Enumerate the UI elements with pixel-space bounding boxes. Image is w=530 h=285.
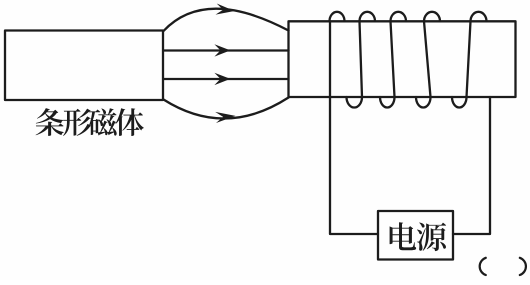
field line straight lower bbox=[164, 78, 289, 80]
arrow on upper straight field line bbox=[214, 44, 230, 56]
arrow on lower straight field line bbox=[214, 73, 230, 85]
coil winding turns bbox=[330, 12, 487, 108]
solenoid core rectangle bbox=[289, 21, 516, 97]
label char 条 bbox=[36, 108, 64, 136]
label char 体 bbox=[115, 108, 143, 136]
label char 源 bbox=[417, 223, 446, 252]
label char 形 bbox=[63, 109, 91, 136]
bar magnet body bbox=[5, 31, 163, 101]
field line top curve bbox=[164, 9, 289, 31]
power supply box bbox=[378, 211, 453, 260]
label char 电 bbox=[390, 222, 417, 250]
answer parenthesis left bbox=[480, 258, 486, 275]
field line bottom curve bbox=[164, 98, 289, 119]
label char 磁 bbox=[88, 108, 116, 135]
answer parenthesis right bbox=[520, 258, 526, 275]
arrow on bottom field curve bbox=[215, 112, 235, 123]
arrow on top field curve bbox=[216, 4, 235, 15]
field line straight upper bbox=[164, 49, 289, 51]
wire right lead bbox=[453, 97, 490, 234]
wire left lead bbox=[330, 21, 378, 234]
